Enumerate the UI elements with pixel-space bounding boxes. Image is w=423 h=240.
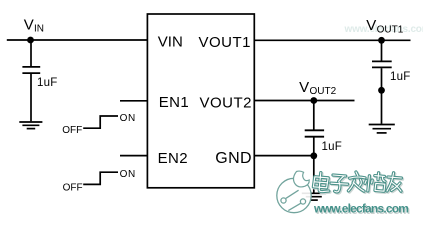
svg-text:V: V (299, 79, 309, 96)
svg-text:VOUT2: VOUT2 (199, 94, 252, 111)
wire VIN input (7, 39, 148, 41)
wire EN2 off-on step waveform (83, 172, 118, 184)
svg-text:OUT2: OUT2 (310, 86, 337, 97)
ground input side (19, 122, 42, 129)
node VOUT2 junction dot (310, 97, 317, 104)
label VIN net (24, 17, 44, 35)
svg-text:OFF: OFF (62, 125, 82, 136)
ground GND pin side (302, 193, 326, 200)
wire C2 upper lead (381, 40, 383, 60)
label VOUT2 net (299, 79, 337, 97)
capacitor C1 1uF input (22, 67, 40, 73)
svg-text:1uF: 1uF (322, 141, 342, 153)
node C2 lower junction dot (378, 87, 385, 94)
wire EN1 off-on step waveform (83, 116, 118, 128)
wire VOUT2 output (254, 100, 354, 102)
node VOUT1 junction dot (378, 37, 385, 44)
svg-text:ON: ON (120, 113, 136, 124)
wire EN2 pin stub (120, 155, 147, 157)
wire GND pin rail (254, 155, 313, 157)
svg-text:V: V (24, 17, 34, 34)
svg-text:1uF: 1uF (37, 77, 57, 89)
wire C3 lower lead to GND rail (313, 138, 315, 193)
svg-text:www.elecfans.com: www.elecfans.com (313, 202, 408, 216)
label VOUT1 net (366, 17, 403, 36)
svg-text:GND: GND (215, 150, 252, 167)
svg-text:V: V (366, 17, 376, 34)
capacitor C3 1uF on VOUT2 (305, 130, 324, 136)
regulator IC U1 block outline (147, 14, 254, 188)
svg-text:OUT1: OUT1 (377, 25, 404, 36)
svg-text:VIN: VIN (158, 34, 183, 51)
capacitor C2 1uF on VOUT1 (372, 61, 392, 67)
svg-text:ON: ON (120, 169, 136, 180)
svg-text:EN1: EN1 (159, 94, 189, 111)
watermark logo circle (277, 171, 311, 213)
wire C2 lower lead (381, 68, 383, 124)
wire C3 upper lead (313, 101, 315, 130)
wire C1 upper lead (30, 40, 32, 66)
wire VOUT1 output (254, 39, 410, 41)
svg-text:IN: IN (34, 24, 44, 35)
node VIN junction dot (27, 37, 34, 44)
wire C1 lower lead (30, 74, 32, 121)
svg-text:VOUT1: VOUT1 (198, 34, 251, 51)
svg-text:EN2: EN2 (158, 150, 188, 167)
ground VOUT1 side (369, 125, 395, 133)
svg-text:1uF: 1uF (390, 71, 410, 83)
svg-text:OFF: OFF (63, 183, 83, 194)
wire EN1 pin stub (120, 100, 147, 102)
node GND junction dot (310, 152, 317, 159)
watermark chinese characters 电子发烧友 outlined (315, 173, 403, 193)
